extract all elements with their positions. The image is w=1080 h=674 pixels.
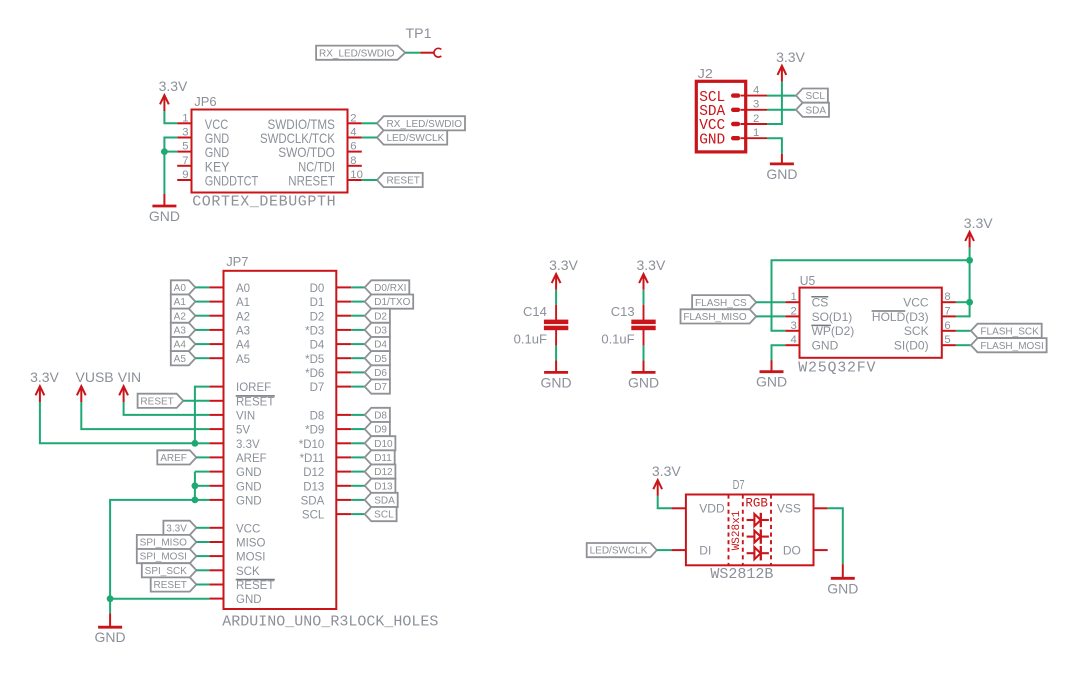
U5 pin name SI(D0) <box>894 339 929 353</box>
svg-text:A1: A1 <box>174 297 187 308</box>
svg-text:5: 5 <box>944 334 950 346</box>
JP7 pin name A2 <box>236 311 250 323</box>
power 3.3V (J2) <box>776 49 805 82</box>
JP7 pin D3 stub <box>336 329 351 331</box>
svg-text:A4: A4 <box>174 340 187 351</box>
svg-text:GND: GND <box>95 629 126 645</box>
svg-text:D10: D10 <box>374 439 393 450</box>
JP6 pin name GND <box>205 145 229 160</box>
svg-text:5V: 5V <box>236 425 250 437</box>
svg-text:MOSI: MOSI <box>236 552 265 564</box>
JP7 pin GND stub <box>209 471 223 473</box>
JP6 pin 10 number <box>350 169 363 181</box>
power 3.3V (C13) <box>637 257 666 290</box>
net flag SPI_SCK (ICSP) <box>142 563 197 577</box>
IC U5 outline <box>800 288 942 358</box>
svg-text:VCC: VCC <box>236 523 260 535</box>
net flag LED/SWCLK (JP6 pin4) <box>377 130 447 144</box>
svg-text:FLASH_MOSI: FLASH_MOSI <box>980 341 1043 352</box>
LED chip diode 3 <box>747 546 769 560</box>
svg-text:GND: GND <box>812 339 839 353</box>
wire GND13 <box>195 471 209 473</box>
wire IOREF to 3.3V <box>195 387 209 444</box>
wire J2 SDA <box>767 109 796 111</box>
svg-text:D4: D4 <box>374 340 387 351</box>
svg-text:SPI_MOSI: SPI_MOSI <box>140 552 187 563</box>
net flag D12 <box>365 465 396 479</box>
svg-text:WP(D2): WP(D2) <box>812 324 855 338</box>
net flag D0/RXI <box>365 280 410 294</box>
J2 pin 1 stub <box>741 137 768 139</box>
U5 pin name SO(D1) <box>812 310 853 324</box>
svg-text:D13: D13 <box>303 481 324 493</box>
wire D9 <box>351 428 365 430</box>
svg-text:RX_LED/SWDIO: RX_LED/SWDIO <box>387 119 463 130</box>
svg-text:A3: A3 <box>174 326 187 337</box>
power VIN <box>118 369 141 402</box>
svg-text:A5: A5 <box>236 354 250 366</box>
label C13 <box>611 304 635 319</box>
svg-text:VIN: VIN <box>118 369 141 385</box>
svg-text:RESET: RESET <box>154 580 187 591</box>
wire WP to 3.3V <box>772 260 970 331</box>
svg-text:3.3V: 3.3V <box>30 369 59 385</box>
LED chip diode 1 <box>747 513 769 527</box>
svg-text:RGB: RGB <box>745 497 768 511</box>
JP7 pin name D2 <box>310 311 325 323</box>
U5 pin 2 number <box>791 305 797 317</box>
JP7 pin 5V stub <box>209 428 223 430</box>
ground GND (D7) <box>827 564 858 596</box>
svg-text:C13: C13 <box>611 304 635 319</box>
svg-text:WS28x1: WS28x1 <box>731 510 743 550</box>
JP7 pin A4 stub <box>209 343 223 345</box>
svg-text:D6: D6 <box>374 368 387 379</box>
JP7 pin GND stub <box>209 499 223 501</box>
net flag FLASH_MOSI <box>971 338 1047 352</box>
wire VSS to GND <box>828 508 843 564</box>
svg-text:JP7: JP7 <box>226 254 248 269</box>
svg-text:D2: D2 <box>310 311 325 323</box>
J2 pin 3 number <box>753 99 759 111</box>
capacitor C13 top pin <box>643 305 645 320</box>
J2 pad pin 4 <box>731 93 740 97</box>
svg-text:D0/RXI: D0/RXI <box>374 283 406 294</box>
capacitor C14 bottom pin <box>555 330 557 346</box>
wire A4 <box>195 343 209 345</box>
JP7 pin D6 stub <box>336 371 351 373</box>
JP6 pin name SWDCLK/TCK <box>260 131 335 146</box>
wire SCL <box>351 513 365 515</box>
D7 dashed divider 2 <box>742 495 744 566</box>
ground GND (J2) <box>766 154 797 182</box>
svg-text:AREF: AREF <box>160 453 187 464</box>
JP7 pin D5 stub <box>336 357 351 359</box>
wire D6 <box>351 371 365 373</box>
svg-text:CORTEX_DEBUGPTH: CORTEX_DEBUGPTH <box>192 194 336 211</box>
junction GND14 <box>192 482 199 489</box>
net flag RESET (JP7) <box>138 394 184 408</box>
svg-text:W25Q32FV: W25Q32FV <box>798 359 876 376</box>
JP7 pin D2 stub <box>336 315 351 317</box>
wire FLASH_CS <box>756 301 785 303</box>
wire J2 VCC to 3.3V <box>767 82 782 124</box>
svg-text:NC/TDI: NC/TDI <box>298 159 335 174</box>
JP6 pin name NC/TDI <box>298 159 335 174</box>
net flag D13 <box>365 479 396 493</box>
JP7 pin name D7 <box>310 382 325 394</box>
JP7 pin name GND <box>236 481 262 493</box>
svg-text:6: 6 <box>350 141 356 153</box>
wire 3.3V to C14 <box>555 290 557 305</box>
JP7 pin GND(icsp) stub <box>209 598 223 600</box>
JP7 pin name A4 <box>236 340 251 352</box>
svg-text:AREF: AREF <box>236 453 267 465</box>
J2 pad pin 1 <box>731 136 740 140</box>
J2 pin 4 stub <box>741 95 768 97</box>
net flag D9 <box>365 422 390 436</box>
net flag SPI_MOSI (ICSP) <box>137 549 197 563</box>
JP6 pin 4 number <box>350 127 356 139</box>
wire JP6 pin4 <box>362 137 377 139</box>
value 0.1uF (C13) <box>601 332 634 347</box>
svg-text:RESET: RESET <box>236 580 274 592</box>
wire C14 to GND <box>555 346 557 361</box>
wire VUSB to 5V <box>81 402 209 429</box>
D7 pin DI stub <box>672 549 686 551</box>
LED D7 outline <box>686 495 814 566</box>
label CORTEX_DEBUGPTH <box>192 194 336 211</box>
svg-text:3: 3 <box>182 127 188 139</box>
JP6 pin 1 stub <box>177 122 191 124</box>
svg-text:GND: GND <box>699 130 725 148</box>
svg-text:VCC: VCC <box>903 296 929 310</box>
net flag RX_LED/SWDIO (JP6 pin2) <box>377 116 465 130</box>
svg-text:SPI_MISO: SPI_MISO <box>140 538 187 549</box>
D7 pin name VDD <box>699 502 725 516</box>
JP7 pin name *D6 <box>305 368 324 380</box>
junction GND bottom <box>107 595 114 602</box>
svg-text:VCC: VCC <box>205 117 228 132</box>
JP7 pin GND stub <box>209 485 223 487</box>
JP7 pin A5 stub <box>209 357 223 359</box>
svg-text:WS2812B: WS2812B <box>710 566 773 583</box>
J2 pin name VCC <box>699 116 725 134</box>
svg-text:SI(D0): SI(D0) <box>894 339 929 353</box>
svg-text:A5: A5 <box>174 354 187 365</box>
svg-text:NRESET: NRESET <box>288 174 335 189</box>
JP6 pin 2 number <box>350 112 356 124</box>
wire SPI_MOSI (ICSP) <box>196 555 209 557</box>
JP7 pin name RESET <box>236 396 275 409</box>
JP7 pin SCK(icsp) stub <box>209 569 223 571</box>
wire GND bus vertical <box>194 472 196 500</box>
svg-text:1: 1 <box>753 127 759 139</box>
JP6 pin 9 stub <box>177 179 191 181</box>
capacitor C14 top pin <box>555 305 557 320</box>
net flag SCL <box>796 89 828 103</box>
JP6 pin name SWO/TDO <box>278 145 335 160</box>
JP7 pin name GND (bottom) <box>236 594 262 606</box>
ground GND (JP7) <box>95 613 126 645</box>
svg-text:SDA: SDA <box>301 496 325 508</box>
wire SPI_SCK (ICSP) <box>196 569 209 571</box>
JP6 pin 1 number <box>182 112 188 124</box>
svg-text:3.3V: 3.3V <box>964 215 993 231</box>
wire GND bottom row <box>110 598 209 600</box>
svg-text:A4: A4 <box>236 340 251 352</box>
U5 pin 3 stub <box>785 330 799 332</box>
svg-text:A2: A2 <box>236 311 250 323</box>
label C14 <box>523 304 547 319</box>
wire 3.3V to JP6 pin1 <box>164 111 177 123</box>
svg-text:GND: GND <box>766 166 797 182</box>
JP6 pin 6 stub <box>348 151 362 153</box>
svg-text:GND: GND <box>149 208 180 224</box>
svg-text:GND: GND <box>628 374 659 390</box>
connector JP7 outline <box>224 271 337 609</box>
svg-text:LED/SWCLK: LED/SWCLK <box>387 133 445 144</box>
wire J2 GND <box>767 138 782 154</box>
JP7 pin name 5V <box>236 425 250 437</box>
svg-text:SCL: SCL <box>374 510 394 521</box>
wire JP6 pin2 <box>362 122 377 124</box>
svg-text:8: 8 <box>944 291 950 303</box>
svg-text:3.3V: 3.3V <box>549 257 578 273</box>
D7 pin VDD stub <box>672 507 686 509</box>
svg-text:D7: D7 <box>733 477 745 492</box>
JP7 pin D7 stub <box>336 386 351 388</box>
U5 pin 7 number <box>944 305 950 317</box>
JP7 pin AREF stub <box>209 456 223 458</box>
ground GND (U5) <box>756 360 787 390</box>
JP7 pin name IOREF <box>236 382 271 394</box>
svg-text:GND: GND <box>236 481 262 493</box>
junction JP6 GND node <box>161 148 168 155</box>
svg-text:2: 2 <box>350 112 356 124</box>
net flag D1/TXO <box>365 295 414 309</box>
svg-text:D7: D7 <box>374 382 387 393</box>
net flag A3 <box>171 323 196 337</box>
JP7 pin name A0 <box>236 283 250 295</box>
wire 3.3V to C13 <box>643 290 645 305</box>
JP7 pin A1 stub <box>209 301 223 303</box>
svg-text:D1: D1 <box>310 297 325 309</box>
JP7 pin name SCK (bottom) <box>236 566 260 578</box>
U5 pin 6 number <box>944 320 950 332</box>
JP6 pin 10 stub <box>348 179 362 181</box>
net flag SCL <box>365 507 397 521</box>
svg-text:D13: D13 <box>374 481 393 492</box>
label JP7 <box>226 254 248 269</box>
JP7 pin D9 stub <box>336 428 351 430</box>
net flag D4 <box>365 337 390 351</box>
wire SDA <box>351 499 365 501</box>
svg-text:8: 8 <box>350 155 356 167</box>
junction 3.3V/IOREF <box>192 440 199 447</box>
D7 pin DO stub <box>814 549 828 551</box>
svg-text:3: 3 <box>791 320 797 332</box>
net flag D8 <box>365 408 390 422</box>
JP7 pin RESET(icsp) stub <box>209 584 223 586</box>
svg-text:2: 2 <box>791 305 797 317</box>
wire A0 <box>195 286 209 288</box>
wire 3.3V rail <box>40 402 195 443</box>
wire D0/RXI <box>351 286 365 288</box>
svg-text:SCL: SCL <box>302 510 325 522</box>
U5 pin name VCC <box>903 296 929 310</box>
JP6 pin 3 number <box>182 127 188 139</box>
svg-text:VDD: VDD <box>699 502 725 516</box>
svg-text:6: 6 <box>944 320 950 332</box>
net flag RX_LED/SWDIO (TP1) <box>316 46 405 60</box>
connector J2 outline <box>696 81 745 152</box>
JP7 pin name SCL <box>302 510 325 522</box>
wire D8 <box>351 414 365 416</box>
svg-text:C14: C14 <box>523 304 547 319</box>
D7 pin VSS stub <box>814 507 828 509</box>
svg-text:D4: D4 <box>310 340 325 352</box>
wire JP6 pin5 to GND <box>164 151 177 153</box>
JP6 pin name GNDDTCT <box>205 174 259 189</box>
JP7 pin SDA stub <box>336 499 351 501</box>
JP6 pin 2 stub <box>348 122 362 124</box>
svg-text:SDA: SDA <box>374 496 395 507</box>
wire JP6 pin3 to GND <box>164 138 177 152</box>
wire D5 <box>351 357 365 359</box>
wire RESET (ICSP) <box>196 584 209 586</box>
net flag RESET (JP6 pin10) <box>377 173 423 187</box>
U5 pin 4 stub <box>785 344 799 346</box>
net flag D7 <box>365 380 390 394</box>
net flag D2 <box>365 309 390 323</box>
net flag A1 <box>171 295 196 309</box>
svg-text:FLASH_SCK: FLASH_SCK <box>980 326 1039 337</box>
label ARDUINO_UNO_R3LOCK_HOLES <box>222 613 438 630</box>
wire AREF <box>196 456 209 458</box>
power VUSB <box>76 369 114 402</box>
JP7 pin A2 stub <box>209 315 223 317</box>
U5 pin 5 stub <box>942 344 956 346</box>
wire D3 <box>351 329 365 331</box>
wire 3.3V (U5) <box>969 248 971 261</box>
wire A5 <box>195 357 209 359</box>
label J2 <box>698 66 713 81</box>
JP7 pin name *D3 <box>305 326 324 338</box>
svg-text:A3: A3 <box>236 326 250 338</box>
power 3.3V (C14) <box>549 257 578 290</box>
wire D2 <box>351 315 365 317</box>
svg-text:FLASH_CS: FLASH_CS <box>695 298 747 309</box>
wire FLASH_MOSI <box>956 344 971 346</box>
JP7 pin VCC(icsp) stub <box>209 527 223 529</box>
wire C13 to GND <box>643 346 645 361</box>
svg-text:3: 3 <box>753 99 759 111</box>
svg-text:GND: GND <box>205 131 229 146</box>
JP7 pin D10 stub <box>336 442 351 444</box>
svg-text:SDA: SDA <box>806 105 827 116</box>
svg-text:D12: D12 <box>374 467 393 478</box>
wire A1 <box>195 301 209 303</box>
svg-text:GND: GND <box>236 467 262 479</box>
wire VCC pin8 <box>956 301 970 303</box>
power 3.3V (D7) <box>652 463 681 496</box>
wire HOLD pin7 <box>956 302 970 316</box>
wire D11 <box>351 456 365 458</box>
JP6 pin name KEY <box>205 159 230 174</box>
wire SPI_MISO (ICSP) <box>196 541 209 543</box>
U5 pin 8 stub <box>942 301 956 303</box>
J2 pin 2 number <box>753 113 759 125</box>
svg-text:SWDCLK/TCK: SWDCLK/TCK <box>260 131 335 146</box>
JP7 pin name GND <box>236 496 262 508</box>
svg-text:RESET: RESET <box>236 396 274 408</box>
svg-text:1: 1 <box>182 112 188 124</box>
J2 pin name GND <box>699 130 725 148</box>
D7 dashed divider 1 <box>728 495 730 566</box>
net flag A4 <box>171 337 196 351</box>
svg-text:KEY: KEY <box>205 159 230 174</box>
svg-text:1: 1 <box>791 291 797 303</box>
J2 pad pin 2 <box>731 122 740 126</box>
net flag D5 <box>365 351 390 365</box>
svg-text:FLASH_MISO: FLASH_MISO <box>683 312 747 323</box>
JP6 pin 6 number <box>350 141 356 153</box>
svg-text:LED/SWCLK: LED/SWCLK <box>590 546 648 557</box>
JP7 pin name GND <box>236 467 262 479</box>
JP7 pin name D13 <box>303 481 324 493</box>
svg-text:SO(D1): SO(D1) <box>812 310 853 324</box>
svg-text:SWO/TDO: SWO/TDO <box>278 145 335 160</box>
svg-text:10: 10 <box>350 169 363 181</box>
capacitor C13 bottom pin <box>643 330 645 346</box>
J2 pin 3 stub <box>741 109 768 111</box>
JP6 pin 8 stub <box>348 165 362 167</box>
net flag SPI_MISO (ICSP) <box>137 535 197 549</box>
D7 pin name DO <box>783 543 801 557</box>
JP7 pin D13 stub <box>336 485 351 487</box>
svg-text:D3: D3 <box>374 326 387 337</box>
svg-text:*D9: *D9 <box>305 425 324 437</box>
svg-text:HOLD(D3): HOLD(D3) <box>872 310 929 324</box>
svg-text:SPI_SCK: SPI_SCK <box>145 566 188 577</box>
JP6 pin 9 number <box>182 169 188 181</box>
wire D4 <box>351 343 365 345</box>
net flag A5 <box>171 351 196 365</box>
svg-text:D5: D5 <box>374 354 387 365</box>
JP7 pin name D0 <box>310 283 325 295</box>
U5 pin 3 number <box>791 320 797 332</box>
label JP6 <box>194 94 216 109</box>
svg-text:*D5: *D5 <box>305 354 324 366</box>
svg-text:3.3V: 3.3V <box>236 439 260 451</box>
svg-text:D8: D8 <box>374 411 387 422</box>
power 3.3V (JP7) <box>30 369 59 402</box>
U5 pin name SCK <box>904 324 929 338</box>
svg-text:3.3V: 3.3V <box>166 523 187 534</box>
svg-text:GNDDTCT: GNDDTCT <box>205 174 259 189</box>
U5 pin 1 number <box>791 291 797 303</box>
svg-text:RX_LED/SWDIO: RX_LED/SWDIO <box>319 48 395 59</box>
wire D12 <box>351 471 365 473</box>
J2 pad pin 3 <box>731 108 740 112</box>
U5 pin 6 stub <box>942 330 956 332</box>
JP7 pin MOSI(icsp) stub <box>209 555 223 557</box>
label D7 <box>733 477 745 492</box>
svg-text:3.3V: 3.3V <box>652 463 681 479</box>
U5 pin 5 number <box>944 334 950 346</box>
ground GND (C14) <box>541 360 572 390</box>
